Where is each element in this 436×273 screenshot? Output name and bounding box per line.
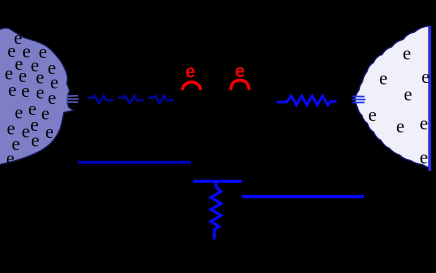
- svg-text:e: e: [420, 148, 428, 169]
- svg-text:e: e: [45, 122, 53, 143]
- svg-text:e: e: [22, 42, 30, 63]
- svg-text:e: e: [36, 83, 44, 104]
- svg-text:e: e: [368, 105, 376, 126]
- svg-text:e: e: [421, 67, 429, 88]
- svg-text:e: e: [396, 117, 404, 138]
- svg-text:e: e: [39, 42, 47, 63]
- svg-text:e: e: [185, 62, 195, 82]
- svg-text:e: e: [8, 80, 16, 101]
- svg-text:e: e: [15, 102, 23, 123]
- svg-text:e: e: [22, 121, 30, 142]
- svg-text:e: e: [420, 114, 428, 135]
- svg-text:e: e: [379, 69, 387, 90]
- svg-text:e: e: [31, 131, 39, 152]
- svg-text:e: e: [235, 61, 245, 81]
- svg-text:e: e: [404, 84, 412, 105]
- svg-text:e: e: [403, 44, 411, 65]
- svg-text:e: e: [6, 149, 14, 170]
